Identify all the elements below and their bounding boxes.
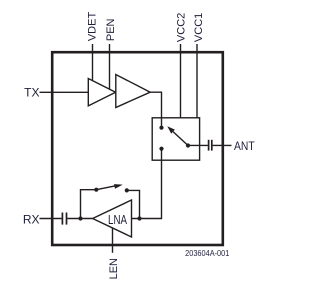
svg-text:203604A-001: 203604A-001 bbox=[185, 249, 229, 258]
node switch pole (ANT) bbox=[186, 143, 190, 147]
wire bypass left branch bbox=[81, 190, 97, 219]
node switch TX throw bbox=[159, 126, 163, 130]
node bypass right contact bbox=[125, 188, 129, 192]
svg-text:LNA: LNA bbox=[108, 214, 127, 228]
wire TX input lead bbox=[40, 91, 89, 93]
svg-text:LEN: LEN bbox=[108, 258, 120, 279]
wire ANT lead bbox=[213, 144, 232, 146]
wire switch RX throw to LNA input bbox=[132, 149, 162, 219]
switch arm arrowhead bbox=[167, 126, 175, 133]
svg-text:RX: RX bbox=[23, 213, 40, 227]
main device outline bbox=[52, 52, 223, 245]
wire switch to ANT coupling cap bbox=[188, 144, 208, 146]
node switch RX throw bbox=[159, 147, 163, 151]
svg-text:VCC2: VCC2 bbox=[176, 13, 188, 42]
wire LEN lead bbox=[112, 228, 114, 253]
amplifier A1 (driver) bbox=[88, 79, 115, 106]
svg-text:TX: TX bbox=[24, 86, 39, 100]
svg-text:PEN: PEN bbox=[105, 18, 117, 41]
capacitor C2 (RX) plate right bbox=[66, 213, 68, 225]
bypass arm arrowhead bbox=[114, 184, 123, 189]
capacitor C1 (ANT) plate left bbox=[208, 140, 210, 151]
T/R switch block bbox=[152, 118, 199, 160]
wire bypass right branch bbox=[127, 190, 140, 218]
node LNA input junction bbox=[137, 216, 141, 220]
svg-text:VCC1: VCC1 bbox=[193, 13, 205, 42]
node RX junction bbox=[78, 216, 82, 220]
wire PEN lead bbox=[109, 44, 111, 89]
svg-text:VDET: VDET bbox=[87, 12, 99, 42]
wire VDET lead bbox=[92, 44, 94, 81]
capacitor C1 (ANT) plate right bbox=[211, 140, 213, 151]
wire VCC1 lead bbox=[196, 44, 198, 118]
wire LNA output to cap bbox=[67, 218, 92, 220]
svg-text:ANT: ANT bbox=[234, 140, 255, 153]
capacitor C2 (RX) plate left bbox=[61, 213, 63, 225]
wire RX lead bbox=[40, 218, 62, 220]
wire A2 output to switch bbox=[150, 92, 161, 128]
amplifier A2 (power amp) bbox=[116, 75, 150, 108]
node bypass left contact bbox=[94, 188, 98, 192]
switch arm wire bbox=[173, 132, 188, 146]
bypass switch arm wire bbox=[96, 186, 115, 190]
amplifier A3 (LNA) bbox=[93, 200, 132, 237]
wire VCC2 lead bbox=[180, 44, 182, 118]
